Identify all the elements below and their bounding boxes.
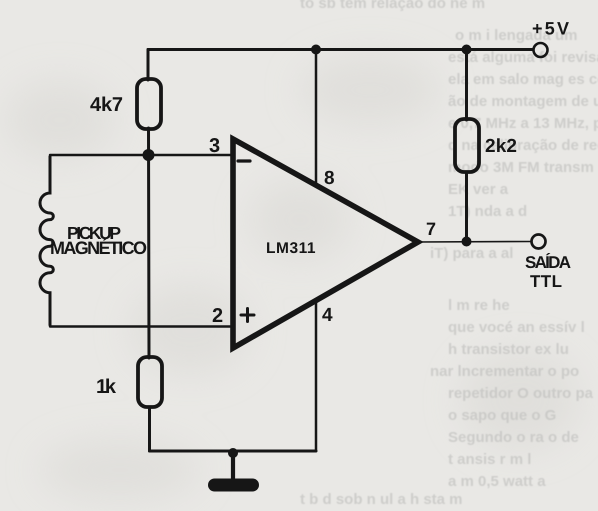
- svg-text:7: 7: [426, 219, 436, 239]
- svg-text:1T) nda a d: 1T) nda a d: [448, 203, 527, 220]
- wire top rail +5V: [148, 48, 533, 51]
- inductor L1 pickup magnetico: [40, 157, 53, 326]
- svg-text:MAGNÉTICO: MAGNÉTICO: [50, 238, 147, 258]
- svg-text:t ansis r m l: t ansis r m l: [448, 451, 531, 468]
- svg-text:4: 4: [322, 305, 333, 326]
- op-amp U1 LM311 triangle: [233, 139, 418, 348]
- ghost show-through text (decorative): [300, 0, 598, 508]
- wire 2k2 top lead: [465, 50, 468, 121]
- wire 4k7 bottom to 1k top (node column): [147, 128, 151, 358]
- terminal SAIDA TTL: [532, 235, 546, 249]
- svg-text:3: 3: [209, 135, 220, 157]
- svg-text:Segundo o ra o de: Segundo o ra o de: [448, 429, 579, 446]
- resistor 1k: [138, 357, 162, 407]
- svg-text:4k7: 4k7: [90, 94, 123, 116]
- svg-text:t b d sob n ul a h sta m: t b d sob n ul a h sta m: [300, 491, 463, 508]
- junction dot pin8/+5V rail: [311, 45, 321, 55]
- svg-text:nar lncrementar o po: nar lncrementar o po: [430, 363, 579, 380]
- junction dot 2k2/+5V rail: [462, 45, 472, 55]
- svg-text:LM311: LM311: [266, 240, 317, 257]
- resistor 4k7: [137, 79, 161, 129]
- svg-text:a m 0,5 watt a: a m 0,5 watt a: [448, 473, 546, 490]
- wire 4k7 top lead: [147, 50, 150, 81]
- op-amp minus input mark: [238, 159, 250, 162]
- svg-text:EK ver a: EK ver a: [448, 181, 509, 198]
- ground stem: [231, 453, 235, 480]
- terminal +5V: [534, 43, 548, 57]
- svg-text:d na calibração de rece: d na calibração de rece: [448, 137, 598, 154]
- wire pin 8 vertical: [315, 50, 318, 186]
- svg-text:l m re he: l m re he: [448, 297, 510, 314]
- svg-text:o sapo que o G: o sapo que o G: [448, 407, 556, 424]
- node A junction dot (pin 3 node): [143, 149, 155, 161]
- svg-text:repetidor O outro pa: repetidor O outro pa: [448, 385, 594, 402]
- svg-text:iT) para a al: iT) para a al: [430, 245, 513, 262]
- svg-text:ela em salo mag es com: ela em salo mag es com: [448, 71, 598, 88]
- svg-text:ão de montagem de um: ão de montagem de um: [448, 93, 598, 110]
- svg-text:+5V: +5V: [532, 19, 569, 39]
- svg-text:1k: 1k: [96, 376, 117, 398]
- ground junction dot: [228, 448, 238, 458]
- svg-text:to sb tem relação do n: to sb tem relação do ne m: [300, 0, 485, 12]
- wire pin 2 horizontal: [50, 325, 231, 327]
- wire bottom rail: [150, 450, 317, 453]
- ground bar: [208, 479, 259, 492]
- svg-text:h transistor ex lu: h transistor ex lu: [448, 341, 569, 358]
- wire pin 4 vertical: [315, 300, 318, 451]
- svg-text:TTL: TTL: [530, 272, 564, 291]
- wire pin 3 horizontal: [50, 154, 231, 156]
- svg-text:que vocé an essív l: que vocé an essív l: [448, 319, 585, 336]
- wire pin 7 output: [416, 241, 532, 244]
- svg-text:2: 2: [212, 305, 223, 327]
- svg-text:2k2: 2k2: [485, 136, 517, 157]
- resistor 2k2: [455, 119, 479, 172]
- wire 2k2 bottom lead: [465, 172, 468, 242]
- svg-text:8: 8: [324, 168, 335, 189]
- op-amp plus input mark: [241, 314, 254, 317]
- wire 1k bottom lead: [148, 407, 151, 451]
- svg-text:SAÍDA: SAÍDA: [525, 252, 571, 272]
- junction dot output node: [462, 237, 472, 247]
